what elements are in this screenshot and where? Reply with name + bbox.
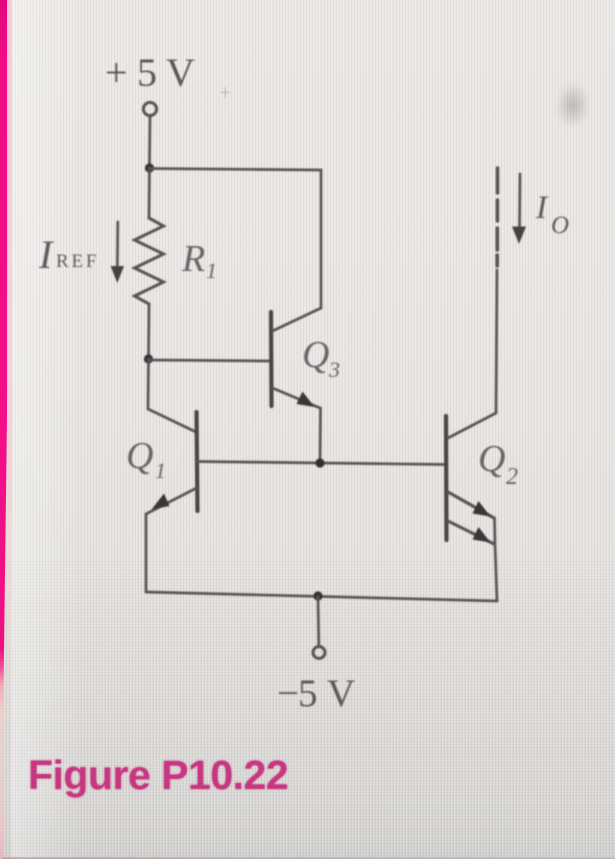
wire: +5V terminal to top node xyxy=(148,116,151,164)
transistor Q1 xyxy=(146,412,198,514)
wire: Q3 emitter down to base rail node xyxy=(319,408,322,461)
svg-text:3: 3 xyxy=(328,357,340,382)
svg-text:Q: Q xyxy=(126,435,153,477)
svg-text:R: R xyxy=(181,238,205,280)
svg-text:Q: Q xyxy=(478,438,505,480)
resistor R1 xyxy=(135,218,164,304)
wire: Q2 emitters to bottom rail xyxy=(495,518,498,601)
figure caption xyxy=(28,752,288,799)
transistor Q2 xyxy=(446,413,496,544)
+5V terminal xyxy=(143,102,156,115)
svg-text:O: O xyxy=(551,212,569,239)
node: top junction xyxy=(145,163,154,172)
wire: top node into resistor xyxy=(148,168,151,218)
wire: Q2 collector riser xyxy=(496,270,497,413)
IO label xyxy=(535,190,569,239)
-5V terminal xyxy=(313,647,325,659)
dashed output lead xyxy=(495,168,499,266)
svg-text:Q: Q xyxy=(302,334,329,376)
svg-text:+5V: +5V xyxy=(105,50,195,95)
Q3 label xyxy=(302,334,340,382)
wire: Q1 collector riser from node A xyxy=(148,359,196,432)
IO current arrow xyxy=(512,174,526,244)
wire: top rail to Q3 collector branch xyxy=(150,169,322,309)
wire: node A to Q3 base xyxy=(149,360,270,361)
svg-text:1: 1 xyxy=(155,458,166,483)
svg-text:I: I xyxy=(38,232,54,277)
Q2 label xyxy=(478,438,518,490)
IREF current arrow xyxy=(111,222,124,283)
svg-text:I: I xyxy=(535,190,549,226)
node: bottom rail junction xyxy=(313,591,322,600)
svg-text:−5V: −5V xyxy=(277,672,355,715)
svg-text:+: + xyxy=(219,80,231,105)
wire: Q1 emitter down to bottom rail xyxy=(145,515,148,592)
wire: resistor to node A xyxy=(147,304,150,359)
binder strip (decor) xyxy=(0,0,9,859)
svg-text:REF: REF xyxy=(56,251,99,272)
bottom rail xyxy=(146,592,497,601)
IREF label xyxy=(38,232,99,277)
node: shared base junction xyxy=(315,458,324,467)
Q1 label xyxy=(126,435,166,483)
base rail: Q1 base to Q2 base xyxy=(198,462,447,465)
transistor Q3 xyxy=(271,308,321,408)
svg-text:1: 1 xyxy=(206,258,217,283)
node A junction (resistor / Q3 base / Q1 collector) xyxy=(144,354,153,363)
wire: bottom node to -5V terminal xyxy=(317,597,320,647)
svg-text:2: 2 xyxy=(506,464,518,490)
R1 value label xyxy=(181,238,217,283)
